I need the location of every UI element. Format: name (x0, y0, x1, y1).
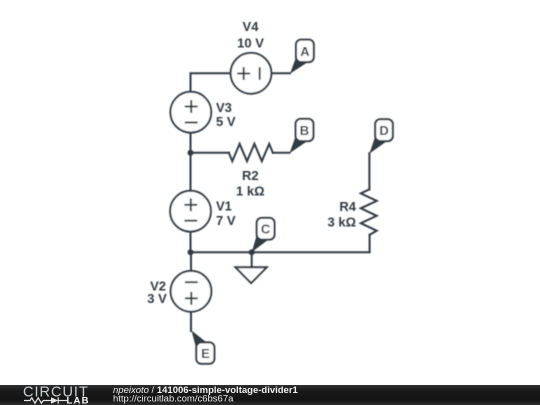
wire: node D flag to R4 top lead (368, 153, 370, 189)
resistor R2 zigzag body (229, 144, 273, 161)
svg-text:7 V: 7 V (216, 213, 236, 228)
voltage source V1 (170, 191, 211, 232)
node D flag (369, 136, 385, 154)
svg-text:V1: V1 (216, 199, 232, 214)
voltage source V3 (170, 92, 211, 133)
svg-text:V4: V4 (243, 19, 260, 34)
svg-text:D: D (379, 123, 388, 138)
node A terminal box (296, 40, 314, 63)
node E flag (192, 331, 207, 351)
logo wire with resistor and diode (24, 397, 67, 403)
wire: V4 left terminal to V3 top terminal (191, 73, 231, 92)
node C flag (252, 235, 268, 253)
node C terminal box (257, 218, 275, 240)
wire: V4 right terminal to node A flag (271, 72, 290, 74)
svg-text:3 V: 3 V (147, 291, 167, 306)
ground symbol (236, 267, 267, 283)
svg-text:http://circuitlab.com/c6bs67a: http://circuitlab.com/c6bs67a (113, 394, 234, 405)
svg-text:V3: V3 (216, 100, 232, 115)
voltage source V4 (231, 53, 272, 94)
junction dot at bus below V1 (188, 249, 194, 255)
node A flag (290, 57, 307, 74)
wire: R2 right lead to node B flag (273, 152, 290, 154)
wire: R4 bottom lead down to bus (369, 235, 371, 252)
svg-text:LAB: LAB (67, 395, 90, 405)
node B flag (290, 136, 307, 153)
wire: V1 bottom to bottom bus junction (190, 232, 192, 253)
svg-text:B: B (300, 123, 309, 138)
svg-text:A: A (300, 44, 310, 59)
wire: V2 bottom to node E flag (190, 311, 192, 331)
junction dot at ground/C node (249, 249, 255, 255)
node B terminal box (296, 119, 314, 141)
svg-text:E: E (201, 346, 210, 361)
svg-text:5 V: 5 V (216, 114, 236, 129)
node E terminal box (196, 342, 214, 363)
wire: bus junction down to V2 top (190, 252, 192, 271)
svg-text:3 kΩ: 3 kΩ (328, 214, 357, 229)
wire: ground stem from junction (251, 252, 253, 267)
voltage source V2 (171, 271, 212, 312)
junction dot at V3/R2 node (188, 150, 194, 156)
svg-text:1 kΩ: 1 kΩ (236, 184, 265, 199)
logo diode triangle (51, 397, 58, 404)
svg-text:10 V: 10 V (237, 36, 264, 51)
svg-text:C: C (261, 222, 271, 237)
svg-text:R2: R2 (242, 168, 259, 183)
node D terminal box (375, 119, 393, 141)
wire: junction to R2 left lead (191, 152, 230, 154)
wire: bottom bus from left junction to R4 bottom corner (191, 251, 370, 253)
svg-text:R4: R4 (339, 199, 356, 214)
wire: V3 bottom through junction to V1 top (190, 133, 192, 191)
resistor R4 zigzag body (361, 189, 377, 235)
